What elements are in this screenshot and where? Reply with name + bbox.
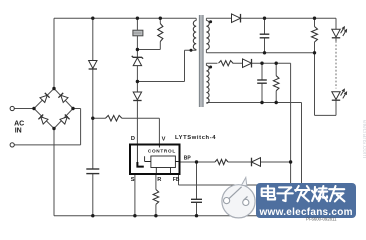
svg-text:IN: IN bbox=[15, 127, 22, 134]
svg-text:FB: FB bbox=[173, 177, 180, 183]
svg-text:S: S bbox=[131, 177, 135, 183]
svg-text:elecfans.com: elecfans.com bbox=[361, 120, 366, 158]
svg-text:CONTROL: CONTROL bbox=[148, 149, 175, 154]
svg-text:R: R bbox=[157, 177, 161, 183]
svg-text:AC: AC bbox=[14, 120, 24, 127]
svg-text:LYTSwitch-4: LYTSwitch-4 bbox=[175, 135, 216, 141]
svg-text:D: D bbox=[131, 136, 135, 142]
svg-text:PI-6600-092811: PI-6600-092811 bbox=[306, 217, 337, 222]
svg-text:BP: BP bbox=[184, 155, 192, 161]
svg-text:V: V bbox=[162, 136, 166, 142]
